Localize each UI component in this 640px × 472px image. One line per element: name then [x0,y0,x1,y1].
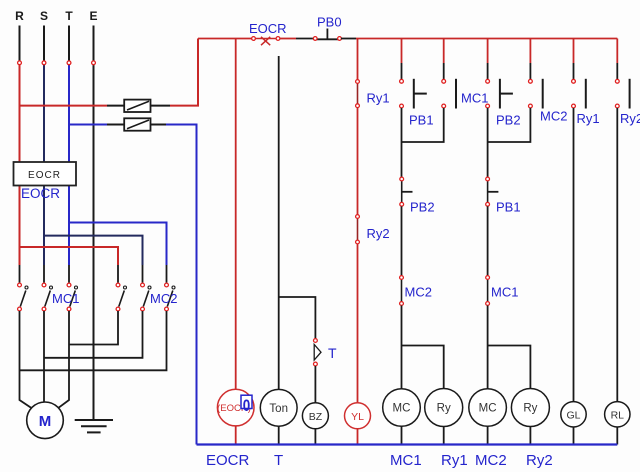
contactor MC1 main contact pole 1 [18,283,28,311]
svg-text:MC: MC [479,403,497,415]
wire PB2 branch drop (black) [487,63,489,79]
wire R to MC2 column 1 [20,247,119,265]
wire MC2 pole2 crossover to V [44,311,143,358]
wire MC2 NC to MC1 coil [401,306,403,389]
wire F2 to control rail L2 (left blue drop) [166,125,197,445]
wire EOCR coil to bottom rail [235,426,237,445]
svg-text:MC1: MC1 [491,285,518,300]
svg-text:MC1: MC1 [52,291,79,306]
svg-text:T: T [274,452,283,469]
wire GL branch drop (black) [573,63,575,79]
fuse F2 [124,118,150,130]
wire rail segment 4 (black) [341,38,356,40]
svg-text:GL: GL [566,410,580,422]
wire stub above MC1 contact 3 [68,265,70,283]
wire fuse F2 feed from T [69,124,107,126]
wire S phase drop [43,65,45,265]
wire fuse F2 left lead [107,124,124,126]
svg-text:PB2: PB2 [410,200,435,215]
svg-text:Ry: Ry [523,403,537,415]
wire YL branch lower [357,244,359,403]
fuse F1 [124,100,150,112]
svg-text:MC1: MC1 [461,91,488,106]
wire PB1 branch drop (black) [401,63,403,79]
wire T lead [68,26,70,61]
coil Ry (Ry2 relay) [511,389,549,427]
svg-text:YL: YL [351,411,364,423]
wire stub above MC2 contact 1 [117,265,119,283]
svg-text:S: S [40,9,48,23]
wire R lead [19,26,21,61]
wire junction to PB1 NC [487,142,489,177]
svg-text:MC: MC [393,403,411,415]
wire BZ branch tap [279,297,316,339]
contact Ry1 NC (YL branch) [356,80,360,108]
svg-text:MC2: MC2 [405,285,432,300]
wire control rail L1 segment 1 (red) [198,38,252,40]
wire PB1 to junction [401,108,403,142]
wire MC2 aux branch drop (black) [529,63,531,79]
svg-text:MC2: MC2 [150,291,177,306]
svg-text:MC2: MC2 [475,452,507,469]
wire YL to bottom rail [357,429,359,445]
wire fuse F2 right lead [151,124,167,126]
EOCR icon [241,395,252,415]
contact MC2 NO (holding) [529,79,543,109]
wire junction to PB2 NC [401,142,403,177]
svg-text:EOCR: EOCR [28,170,61,181]
wire RL branch drop (red, rail end bend) [616,39,618,64]
wire Ry1 NO to GL [573,108,575,402]
wire PB2 NC to MC2 NC [401,206,403,275]
wire rail segment 3 (black) [296,38,314,40]
coil Ry (Ry1 relay) [425,389,463,427]
buzzer BZ [302,403,328,429]
contact Ry1 NO (GL lamp) [572,79,586,109]
contactor MC2 main contact pole 3 [165,283,175,311]
terminal T [67,61,71,65]
wire YL branch middle [357,108,359,215]
wire MC1 coil to bottom rail [401,426,403,444]
wire YL branch upper [357,39,359,80]
contact MC2 NC (interlock) [400,276,404,306]
wire GL to bottom rail [573,427,575,445]
motor M [27,402,64,439]
wire timer contact to BZ [314,366,316,403]
timer contact T (delay NO) [314,339,322,366]
svg-text:Ry: Ry [437,403,451,415]
svg-text:EOCR: EOCR [21,186,60,201]
wire GL branch drop (red) [573,39,575,64]
svg-text:Ton: Ton [269,403,288,415]
wire motor phase V [43,311,45,402]
ground [75,420,113,432]
svg-text:MC2: MC2 [540,109,567,124]
wire MC1 aux to junction [402,108,444,142]
contactor MC1 main contact pole 3 [67,283,77,311]
wire stub above MC2 contact 3 [166,265,168,283]
coil Ton (timer) [260,389,297,426]
wire E lead [93,26,95,61]
svg-text:PB1: PB1 [496,200,521,215]
wire Ton coil to bottom rail [278,426,280,444]
svg-text:EOCR: EOCR [206,452,250,469]
wire MC1 aux branch drop (red) [443,39,445,64]
svg-text:BZ: BZ [309,411,323,423]
wire stub above MC2 contact 2 [142,265,144,283]
wire bottom rail L2 [197,443,618,445]
svg-text:Ry1: Ry1 [577,111,600,126]
wire T phase drop [68,65,70,265]
svg-text:R: R [15,9,24,23]
contactor MC2 main contact pole 2 [141,283,151,311]
wire Ry2 coil to bottom rail [529,427,531,445]
contact MC1 NC (interlock) [486,276,490,306]
lamp RL [605,402,630,427]
wire MC1 NC to MC2 coil [487,306,489,389]
svg-text:Ry1: Ry1 [441,452,468,469]
contact Ry2 NO (RL lamp) [615,79,629,109]
wire S lead [43,26,45,61]
overload relay EOCR power block [14,162,77,186]
wire E earth drop [93,65,95,420]
coil MC (MC2 contactor) [469,389,507,427]
svg-text:RL: RL [611,410,625,422]
wire stub above MC1 contact 1 [19,265,21,283]
wire RL to bottom rail [616,427,618,445]
pushbutton PB2 NC (interlock) [400,177,413,206]
wire EOCR coil branch [235,39,237,390]
wire T to MC2 column 3 [69,223,167,266]
wire PB1 NC to MC1 NC [487,206,489,275]
svg-text:PB0: PB0 [317,15,342,30]
wire fuse F1 right lead [151,105,171,107]
contactor MC1 main contact pole 2 [42,283,52,311]
pushbutton PB0 NC (stop) [313,29,341,41]
wire Ry1 coil to bottom rail [443,427,445,445]
svg-text:M: M [39,413,52,430]
wire BZ to bottom rail [314,429,316,445]
lamp GL [561,402,586,427]
svg-text:EOCR: EOCR [249,21,287,36]
svg-text:0: 0 [243,396,251,415]
wire motor phase W [58,311,69,408]
svg-text:PB2: PB2 [496,113,521,128]
terminal E [92,61,96,65]
wire Ry2 coil parallel branch [488,346,531,389]
wire MC1 aux branch drop (black) [443,63,445,79]
wire fuse F1 feed from R [20,105,108,107]
coil MC (MC1 contactor) [383,389,421,427]
wire Ry1 coil parallel branch [402,346,444,389]
wire RL branch drop (black) [616,63,618,79]
svg-text:MC1: MC1 [390,452,422,469]
wire MC2 aux to junction [488,108,531,142]
wire PB2 to junction [487,108,489,142]
wire PB1 branch drop (red) [401,39,403,64]
contact EOCR NC (trip contact) [252,37,280,46]
terminal S [42,61,46,65]
svg-text:Ry2: Ry2 [526,452,553,469]
terminal R [18,61,22,65]
wire S to MC2 column 2 [44,236,143,265]
coil EOCR [217,389,254,426]
contactor MC2 main contact pole 1 [116,283,126,311]
pushbutton PB1 NO (forward start) [400,79,427,109]
wire rail segment 2 (red) [280,38,296,40]
lamp YL [345,403,371,429]
wire MC2 pole1 crossover to W [69,311,118,345]
wire F1 to control rail L1 [170,39,198,106]
wire MC2 pole3 crossover to U [20,311,167,370]
contact MC1 NO (holding) [442,79,456,109]
wire motor phase U [20,311,32,408]
wire Ry2 NO to RL [616,108,618,402]
wire rail segment 5 (red) [356,38,617,40]
wire MC2 coil to bottom rail [487,426,489,444]
svg-text:T: T [65,9,73,23]
wire stub above MC1 contact 2 [43,265,45,283]
wire Ton branch [278,56,280,389]
wire fuse F1 left lead [107,105,124,107]
svg-text:T: T [328,345,337,361]
pushbutton PB2 NO (reverse start) [486,79,513,109]
svg-text:E: E [89,9,97,23]
svg-text:PB1: PB1 [409,113,434,128]
wire PB2 branch drop (red) [487,39,489,64]
svg-text:Ry1: Ry1 [367,91,390,106]
wire MC2 aux branch drop (red) [529,39,531,64]
pushbutton PB1 NC (interlock) [486,177,499,206]
contact Ry2 NC (YL branch) [356,215,360,244]
svg-text:Ry2: Ry2 [367,226,390,241]
svg-text:Ry2: Ry2 [620,111,640,126]
wire R phase drop [19,65,21,265]
